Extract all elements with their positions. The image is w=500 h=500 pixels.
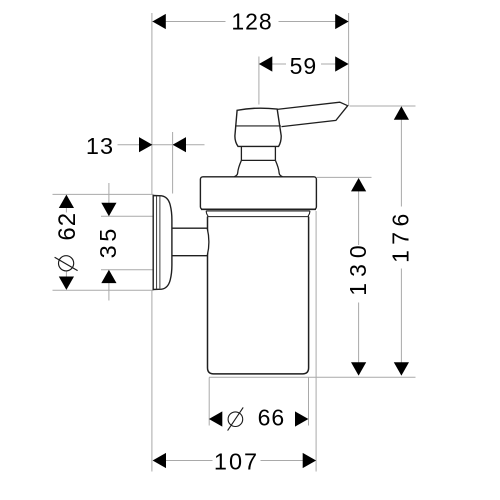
dimension line 59 horizontal	[259, 63, 349, 65]
pump cap seam line	[235, 125, 281, 127]
glass rim right step	[308, 211, 310, 217]
extension line glass left bottom vertical	[208, 378, 210, 426]
extension line left wall plane (bottom)	[151, 290, 153, 472]
arrow 13 right pointing left	[173, 137, 186, 152]
pump foot left curve	[234, 160, 241, 176]
extension line plate front vertical	[172, 132, 174, 194]
pump neck left side	[240, 147, 242, 161]
extension line collar top horizontal	[317, 176, 372, 178]
wall plate inner ring line 2	[159, 197, 161, 289]
pump foot right curve	[275, 160, 282, 176]
dimension line 107 horizontal	[165, 460, 304, 462]
dimension line 128 horizontal	[152, 21, 348, 23]
arrow 59 left	[259, 56, 272, 71]
extension line pump cap left vertical	[258, 57, 260, 105]
arrow 62 top	[59, 195, 74, 208]
arrow 128 right	[335, 14, 348, 29]
holder arm	[170, 228, 209, 256]
arrow 107 right	[303, 453, 316, 468]
extension line glass bottom horizontal	[209, 376, 416, 378]
extension line collar right vertical	[315, 211, 317, 472]
arrow 176 top	[394, 106, 409, 119]
glass tumbler body	[208, 217, 309, 374]
svg-text:62: 62	[54, 212, 81, 241]
arrow 13 left pointing right	[139, 137, 152, 152]
glass rim left step	[206, 211, 208, 217]
arrow 176 bottom	[394, 362, 409, 375]
pump cap	[235, 108, 281, 146]
collar bottom edge	[201, 208, 316, 210]
extension line lever tip vertical	[348, 13, 350, 106]
dimension line 176 vertical segments	[400, 107, 402, 375]
wall plate escutcheon	[153, 196, 172, 290]
arrow 128 left	[152, 14, 165, 29]
extension line rim horizontal	[101, 215, 154, 217]
svg-text:130: 130	[345, 239, 371, 295]
arrow 59 right	[335, 56, 348, 71]
label diameter symbol 66	[228, 407, 244, 430]
pump neck mid line	[241, 159, 275, 161]
arrow 66 right	[295, 411, 308, 426]
extension line left wall plane (top)	[151, 13, 153, 195]
extension line plate bottom horizontal	[53, 289, 154, 291]
dimension line 35 vertical segments	[108, 183, 110, 301]
dimension line 62 vertical segments	[65, 208, 67, 278]
dimension line 13 horizontal	[118, 144, 205, 146]
extension line glass right bottom vertical	[308, 378, 310, 426]
pump neck right side	[274, 147, 276, 161]
arrow 62 bottom	[59, 277, 74, 290]
arrow 130 bottom	[351, 362, 366, 375]
arrow 35 top pointing down	[101, 203, 116, 216]
svg-text:13: 13	[86, 133, 114, 159]
glass rim bottom edge	[208, 216, 309, 218]
svg-text:35: 35	[95, 225, 121, 258]
extension line plate top horizontal	[53, 193, 154, 195]
glass rim top edge	[206, 210, 310, 212]
dimension line 130 vertical segments	[358, 179, 360, 376]
extension line lever tip horizontal	[350, 105, 416, 107]
svg-text:176: 176	[388, 208, 414, 263]
svg-text:128: 128	[231, 9, 272, 35]
svg-text:59: 59	[290, 53, 318, 79]
arrow 107 left	[153, 453, 166, 468]
collar chrome ring	[200, 177, 316, 210]
svg-text:107: 107	[214, 449, 259, 475]
wall plate inner ring line 1	[156, 196, 158, 289]
extension line arm bottom horizontal	[101, 269, 154, 271]
pump lever spout	[277, 102, 348, 126]
arrow 35 bottom pointing up	[101, 270, 116, 283]
label diameter symbol 62	[55, 256, 78, 271]
arrow 130 top	[351, 178, 366, 191]
svg-text:66: 66	[258, 405, 286, 431]
arrow 66 left	[209, 411, 222, 426]
